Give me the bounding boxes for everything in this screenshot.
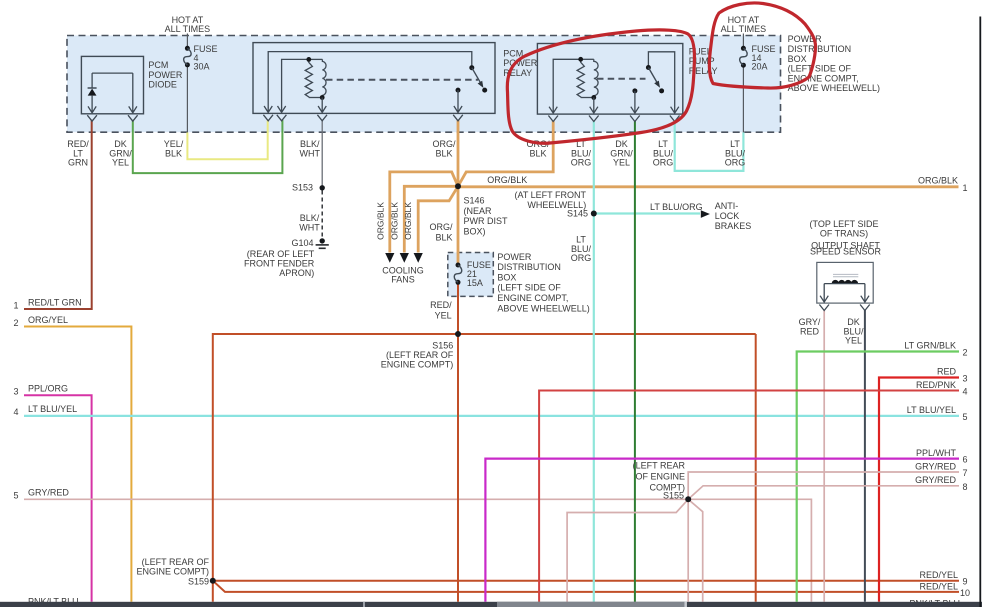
- svg-text:S159: S159: [188, 576, 209, 586]
- svg-text:ORG/BLK: ORG/BLK: [403, 202, 413, 240]
- svg-text:DISTRIBUTION: DISTRIBUTION: [788, 44, 852, 54]
- svg-text:GRY/RED: GRY/RED: [28, 488, 69, 498]
- cooling fan arrow 3: [414, 253, 423, 263]
- fuse F21 15A: [456, 263, 461, 268]
- svg-text:G104: G104: [291, 238, 313, 248]
- svg-text:PCM: PCM: [148, 60, 168, 70]
- svg-text:BLK: BLK: [165, 148, 182, 158]
- wire PPL/ORG circuit 3 left: [24, 395, 92, 602]
- svg-text:2: 2: [14, 318, 19, 328]
- wire LT BLU/ORG fuel relay pin2 down through S145 to bottom: [593, 121, 595, 602]
- svg-text:ALL TIMES: ALL TIMES: [721, 24, 767, 34]
- node dot PCM coil top: [306, 57, 311, 62]
- svg-text:ORG: ORG: [571, 158, 592, 168]
- wire RED/YEL below fuse 21 through S156 down to bottom: [457, 283, 459, 602]
- PCM power relay box U1: [253, 43, 495, 114]
- diode pin 2: [129, 73, 137, 113]
- wire RED/YEL S156 horizontal left branch to S159 column: [213, 334, 756, 602]
- wire RED circuit 3 right: [879, 378, 959, 602]
- PCM relay pin3: [318, 98, 326, 113]
- PCM relay pin1 rail to switch pivot: [268, 52, 472, 108]
- svg-text:4: 4: [963, 387, 968, 397]
- wire RED/YEL right branch turn-down at x=755.7: [755, 334, 757, 602]
- svg-text:LT BLU/YEL: LT BLU/YEL: [28, 404, 77, 414]
- svg-text:POWER: POWER: [497, 252, 532, 262]
- wire ORG/YEL circuit 2 left: [24, 327, 131, 602]
- svg-text:YEL: YEL: [435, 311, 452, 321]
- chevron fuel pin2: [589, 116, 599, 122]
- svg-text:PWR DIST: PWR DIST: [464, 216, 509, 226]
- PCM relay pin4 contact dot: [456, 88, 461, 93]
- wire BLK/WHT from PCM relay pin3 to S153: [321, 120, 323, 188]
- cooling fan arrow 2: [400, 253, 409, 263]
- wire ORG/BLK cooling fan branch 3: [418, 186, 458, 252]
- node dot fuel coil top: [578, 57, 583, 62]
- svg-text:RED/PNK: RED/PNK: [916, 380, 956, 390]
- fuel relay switch blade: [648, 68, 658, 85]
- node S153: [320, 185, 325, 190]
- PCM relay coil resistor: [305, 59, 312, 97]
- fuse 21 box (dashed): [448, 253, 494, 297]
- svg-text:3: 3: [14, 387, 19, 397]
- node S155: [685, 496, 691, 502]
- svg-text:20A: 20A: [752, 62, 768, 72]
- wire ORG/BLK long run S146 to right edge circuit 1: [458, 185, 959, 188]
- svg-text:WHT: WHT: [300, 148, 321, 158]
- svg-text:BLK: BLK: [529, 148, 546, 158]
- fuel relay pin1 rail: [553, 59, 581, 108]
- svg-text:RED: RED: [800, 326, 820, 336]
- ground G104: [320, 238, 325, 243]
- svg-text:5: 5: [963, 412, 968, 422]
- svg-text:ORG/BLK: ORG/BLK: [487, 175, 527, 185]
- svg-text:6: 6: [963, 455, 968, 465]
- wire RED/YEL circuit 10 from S159: [213, 581, 959, 592]
- fuel relay top wire to coil: [581, 58, 594, 60]
- svg-text:FUEL: FUEL: [689, 47, 712, 57]
- svg-text:GRY/RED: GRY/RED: [915, 475, 956, 485]
- sensor pin2: [861, 284, 869, 303]
- svg-text:ORG: ORG: [571, 253, 592, 263]
- svg-text:(TOP LEFT SIDE: (TOP LEFT SIDE: [809, 219, 878, 229]
- sensor core lines: [833, 273, 858, 275]
- svg-text:APRON): APRON): [279, 268, 314, 278]
- svg-text:ALL TIMES: ALL TIMES: [165, 24, 211, 34]
- annotation red loop around fuel pump relay: [507, 30, 694, 143]
- PCM relay blade end dot: [482, 88, 487, 93]
- wire GRY/RED from speed sensor down to bottom: [823, 310, 825, 602]
- node dot PCM coil bottom: [320, 95, 325, 100]
- svg-text:5: 5: [14, 491, 19, 501]
- wire feed above fuse 4: [186, 34, 188, 49]
- wire DK BLU/YEL from speed sensor down to bottom: [864, 310, 866, 602]
- fuse F4 30A: [185, 46, 190, 51]
- fuel relay pin4 arrow: [671, 107, 679, 113]
- wire DK GRN/YEL fuel relay pin3 down to bottom: [634, 121, 636, 602]
- svg-text:ABOVE WHEELWELL): ABOVE WHEELWELL): [788, 83, 880, 93]
- chevron diode pin1: [87, 115, 97, 121]
- svg-text:RED/YEL: RED/YEL: [919, 570, 958, 580]
- fuse F14 20A: [741, 46, 746, 51]
- diode D1 symbol: [91, 73, 93, 88]
- PCM relay top wire to coil: [309, 58, 323, 60]
- wire GRY/RED circuit 8 from S155: [688, 486, 959, 500]
- svg-text:RED: RED: [937, 367, 957, 377]
- svg-text:1: 1: [963, 183, 968, 193]
- svg-text:9: 9: [963, 577, 968, 587]
- svg-text:PPL/ORG: PPL/ORG: [28, 384, 68, 394]
- svg-text:GRN: GRN: [68, 158, 88, 168]
- fuel relay pin3 contact dot: [632, 88, 637, 93]
- svg-text:POWER: POWER: [788, 34, 823, 44]
- output shaft speed sensor box: [817, 262, 873, 303]
- svg-text:10: 10: [960, 588, 970, 598]
- annotation red loop around fuse 14: [709, 3, 815, 88]
- svg-text:ORG: ORG: [725, 158, 746, 168]
- svg-text:POWER: POWER: [148, 70, 183, 80]
- fuel relay switch pivot to pin4 rail: [648, 52, 674, 108]
- fuel relay blade end dot: [659, 88, 664, 93]
- svg-text:OF ENGINE: OF ENGINE: [635, 472, 685, 482]
- chevron fuel pin1: [548, 116, 558, 122]
- svg-text:BLK: BLK: [435, 233, 452, 243]
- svg-text:(NEAR: (NEAR: [464, 206, 493, 216]
- fuel relay bottom node wire: [581, 97, 594, 99]
- fuel relay pin1 arrow: [549, 107, 557, 113]
- svg-text:S153: S153: [292, 183, 313, 193]
- wire BLK/WHT dashed S153 to G104: [321, 191, 323, 239]
- svg-text:FANS: FANS: [391, 275, 415, 285]
- wire RED/PNK circuit 4 right: [539, 391, 959, 602]
- wire RED/YEL circuit 9 from S159: [213, 580, 959, 582]
- sensor pin1: [820, 284, 828, 303]
- PCM relay switch pivot dot: [469, 65, 474, 70]
- wire DK GRN/YEL from diode pin2 to PCM relay pin2: [133, 120, 283, 173]
- wire GRY/RED S155 branch down x=688: [687, 499, 689, 602]
- svg-text:ORG/: ORG/: [429, 222, 453, 232]
- fuel relay coil resistor: [577, 59, 584, 97]
- svg-text:OF TRANS): OF TRANS): [820, 229, 868, 239]
- svg-text:3: 3: [963, 374, 968, 384]
- svg-text:(AT LEFT FRONT: (AT LEFT FRONT: [514, 190, 586, 200]
- node dot fuel coil bottom: [591, 95, 596, 100]
- svg-text:15A: 15A: [467, 278, 483, 288]
- svg-text:BRAKES: BRAKES: [715, 221, 752, 231]
- svg-text:ORG/BLK: ORG/BLK: [376, 202, 386, 240]
- wire feed above fuse 14: [742, 34, 744, 49]
- svg-text:ORG/YEL: ORG/YEL: [28, 315, 68, 325]
- svg-text:ORG/BLK: ORG/BLK: [389, 202, 399, 240]
- wire YEL/BLK from fuse 4 to PCM relay pin1: [187, 120, 267, 159]
- wire ORG/BLK S146 down to fuse 21: [457, 186, 460, 264]
- bottom bar: [0, 602, 982, 607]
- PCM relay dashed actuation line: [326, 79, 478, 81]
- svg-text:LT BLU/ORG: LT BLU/ORG: [650, 202, 703, 212]
- wire ORG/BLK cooling fan branch 2: [404, 186, 458, 252]
- sensor wire U: [824, 283, 865, 285]
- PCM relay pin2 arrow: [278, 106, 286, 112]
- wire fuse 14 output to box edge: [742, 65, 744, 132]
- PCM relay coil L: [322, 59, 326, 97]
- svg-text:7: 7: [963, 468, 968, 478]
- svg-text:YEL: YEL: [112, 158, 129, 168]
- right page border line: [979, 17, 981, 607]
- node S146: [455, 183, 461, 189]
- power distribution box (dashed): [67, 36, 781, 133]
- diode inner loop wire: [92, 72, 133, 74]
- svg-text:(LEFT SIDE OF: (LEFT SIDE OF: [497, 283, 561, 293]
- svg-text:4: 4: [14, 407, 19, 417]
- svg-text:2: 2: [963, 348, 968, 358]
- wire GRY/RED S155 lower-right branch down x=702.7: [688, 499, 703, 602]
- wire GRY/RED circuit 7 from S155: [688, 472, 959, 499]
- fuel pump relay box U2: [537, 44, 682, 115]
- svg-text:RED/YEL: RED/YEL: [919, 581, 958, 591]
- anti-lock brakes arrow: [701, 210, 710, 218]
- fuel relay dashed actuation line: [597, 78, 646, 80]
- chevron PCM pin4: [453, 115, 463, 121]
- svg-text:RED/: RED/: [430, 300, 452, 310]
- wire GRY/RED S155 lower-left branch down x=567.1: [567, 499, 688, 602]
- svg-text:SPEED SENSOR: SPEED SENSOR: [810, 247, 882, 257]
- wire LT BLU/ORG S145 to anti-lock brakes arrow: [594, 212, 700, 214]
- svg-text:8: 8: [963, 482, 968, 492]
- node S156: [455, 331, 461, 337]
- svg-text:DISTRIBUTION: DISTRIBUTION: [497, 262, 561, 272]
- svg-text:ORG/BLK: ORG/BLK: [918, 176, 958, 186]
- svg-text:30A: 30A: [194, 62, 210, 72]
- wire RED/LT GRN circuit 1 left: [24, 120, 92, 309]
- svg-text:1: 1: [14, 301, 19, 311]
- chevron fuel pin4: [670, 116, 680, 122]
- chevron PCM pin3: [317, 115, 327, 121]
- wire ORG/BLK cooling fan branch 1: [390, 172, 458, 253]
- PCM relay bottom node wire: [309, 97, 323, 99]
- wire LT GRN/BLK circuit 2 right: [797, 352, 959, 602]
- svg-text:LT BLU/YEL: LT BLU/YEL: [907, 405, 956, 415]
- svg-text:ORG: ORG: [653, 158, 674, 168]
- svg-text:(LEFT REAR: (LEFT REAR: [633, 460, 686, 470]
- svg-text:PPL/WHT: PPL/WHT: [916, 448, 957, 458]
- svg-text:YEL: YEL: [845, 336, 862, 346]
- PCM relay pin2 rail: [282, 59, 309, 107]
- svg-text:WHT: WHT: [299, 223, 320, 233]
- svg-text:YEL: YEL: [613, 158, 630, 168]
- svg-text:S146: S146: [464, 196, 485, 206]
- svg-text:ABOVE WHEELWELL): ABOVE WHEELWELL): [497, 303, 589, 313]
- svg-text:ENGINE COMPT): ENGINE COMPT): [381, 359, 454, 369]
- node S145: [591, 211, 597, 217]
- svg-text:LOCK: LOCK: [715, 211, 740, 221]
- svg-text:ENGINE COMPT,: ENGINE COMPT,: [497, 293, 568, 303]
- svg-text:S145: S145: [567, 209, 588, 219]
- svg-text:RED/LT GRN: RED/LT GRN: [28, 298, 82, 308]
- wire PPL/WHT circuit 6 right: [485, 459, 959, 602]
- fuel relay coil L: [594, 59, 598, 97]
- PCM relay pin4: [454, 90, 462, 112]
- wire ORG/BLK PCM relay pin4 down to S146: [457, 120, 460, 187]
- svg-text:(LEFT SIDE OF: (LEFT SIDE OF: [788, 64, 852, 74]
- wire ORG/BLK fuel pump relay pin1 to S146: [458, 121, 553, 187]
- chevron PCM pin2: [277, 115, 287, 121]
- svg-text:BOX: BOX: [497, 272, 516, 282]
- sensor coil bumps: [832, 280, 858, 283]
- svg-text:BLK: BLK: [435, 148, 452, 158]
- svg-text:BOX): BOX): [464, 226, 486, 236]
- cooling fan arrow 1: [385, 253, 394, 263]
- PCM relay switch blade: [472, 68, 482, 85]
- fuel relay pin2: [590, 98, 598, 114]
- svg-text:GRY/RED: GRY/RED: [915, 461, 956, 471]
- wire fuse 4 output to box edge: [186, 65, 188, 132]
- svg-text:LT GRN/BLK: LT GRN/BLK: [904, 341, 956, 351]
- chevron PCM pin1: [263, 115, 273, 121]
- svg-text:BOX: BOX: [788, 54, 807, 64]
- wire GRY/RED circuit 5 left to S155 to turn-down at x=811: [24, 499, 811, 602]
- wire LT BLU/ORG fuel relay pin4 to fuse 14: [675, 121, 744, 171]
- svg-text:ANTI-: ANTI-: [715, 201, 739, 211]
- svg-text:ENGINE COMPT): ENGINE COMPT): [136, 566, 209, 576]
- chevron sensor pin1: [819, 305, 829, 311]
- svg-text:DIODE: DIODE: [148, 80, 177, 90]
- chevron sensor pin2: [860, 305, 870, 311]
- chevron diode pin2: [128, 115, 138, 121]
- svg-text:S155: S155: [663, 490, 684, 500]
- PCM relay pin1 arrow: [264, 106, 272, 112]
- chevron fuel pin3: [630, 116, 640, 122]
- fuel relay switch pivot dot: [646, 65, 651, 70]
- wire LT BLU/YEL circuit 4 left to 5 right: [24, 415, 959, 417]
- node S159: [210, 578, 216, 584]
- fuel relay pin3: [631, 91, 639, 113]
- PCM power diode box: [81, 56, 143, 113]
